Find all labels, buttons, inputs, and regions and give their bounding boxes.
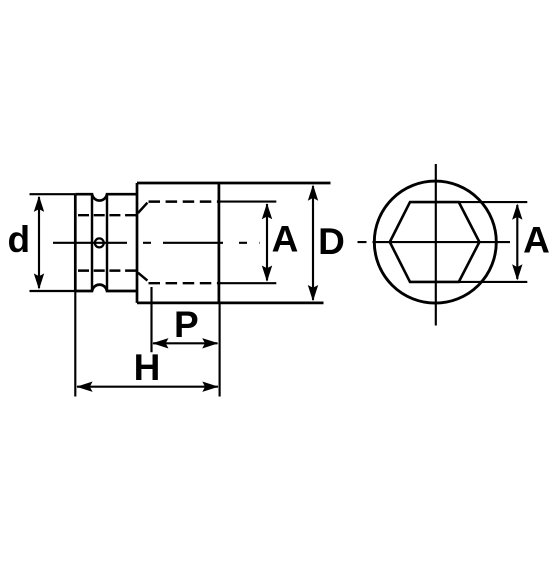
hidden edge: drive square top <box>78 214 136 216</box>
chamfer line top <box>138 203 147 213</box>
dimension A (front view) extension bottom <box>459 281 528 283</box>
dimension A (front view) arrow line <box>516 205 518 279</box>
svg-text:A: A <box>272 218 299 259</box>
dimension d extension bottom <box>30 290 76 292</box>
hidden edge: hex socket top <box>149 200 219 202</box>
dimension A (side view) extension top <box>220 201 276 203</box>
pin hole circle <box>95 238 104 247</box>
dimension H extension left <box>74 291 76 397</box>
dimension P extension left <box>150 287 152 352</box>
wire: front view horizontal centerline <box>358 241 511 243</box>
svg-text:H: H <box>134 347 161 388</box>
dimension A (front view) extension top <box>459 201 528 203</box>
socket body outline <box>137 182 331 185</box>
dimension H / P extension right <box>219 304 221 397</box>
dimension d arrow line <box>38 197 40 288</box>
dimension D arrow line <box>312 186 314 300</box>
dimension P arrow line <box>153 342 218 344</box>
groove edge line right <box>106 194 108 291</box>
dimension H arrow line <box>77 386 218 388</box>
svg-text:A: A <box>523 219 550 260</box>
wire: centerline of side view <box>53 242 260 244</box>
dimension d extension top <box>30 193 76 195</box>
drive end outline (square drive, side view) <box>75 194 137 291</box>
wire: front view vertical centerline <box>435 164 437 326</box>
svg-text:D: D <box>318 221 345 262</box>
front view hexagon <box>390 202 480 282</box>
hidden edge: hex socket bottom <box>149 282 219 284</box>
chamfer line bottom <box>138 273 147 281</box>
dimension A (side view) extension bottom <box>220 282 276 284</box>
hidden edge: drive square bottom <box>78 269 136 271</box>
groove edge line left <box>91 194 93 291</box>
front view outer circle <box>374 181 496 303</box>
dimension A (side view) arrow line <box>266 204 268 281</box>
svg-text:d: d <box>7 219 30 260</box>
svg-text:P: P <box>174 304 199 345</box>
